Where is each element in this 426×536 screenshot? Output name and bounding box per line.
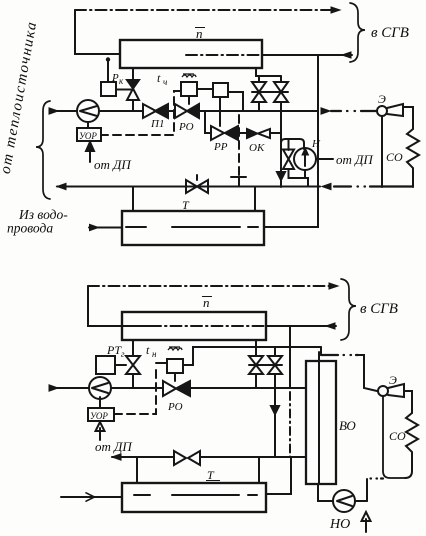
- svg-text:НО: НО: [329, 517, 350, 532]
- svg-text:РО: РО: [178, 121, 194, 133]
- svg-text:к: к: [119, 76, 124, 86]
- svg-text:от теплоисточника: от теплоисточника: [0, 20, 40, 176]
- svg-text:в СГВ: в СГВ: [371, 25, 409, 41]
- svg-text:УОР: УОР: [79, 131, 97, 141]
- svg-text:Э: Э: [378, 92, 386, 106]
- svg-text:ВО: ВО: [339, 418, 356, 433]
- svg-text:Н: Н: [311, 138, 321, 150]
- svg-text:в СГВ: в СГВ: [360, 301, 398, 317]
- svg-text:п: п: [203, 295, 210, 310]
- svg-text:от ДП: от ДП: [95, 439, 133, 454]
- svg-text:н: н: [152, 349, 157, 359]
- svg-text:РТ: РТ: [106, 343, 122, 357]
- svg-text:г: г: [121, 349, 125, 359]
- svg-text:ОК: ОК: [249, 142, 265, 154]
- svg-text:от ДП: от ДП: [94, 157, 132, 172]
- svg-text:РР: РР: [213, 141, 228, 153]
- svg-text:провода: провода: [7, 221, 53, 236]
- svg-text:СО: СО: [389, 429, 406, 443]
- svg-text:Р: Р: [111, 72, 119, 84]
- svg-text:П1: П1: [150, 118, 164, 130]
- svg-text:ч: ч: [163, 77, 167, 87]
- svg-text:t: t: [157, 71, 161, 85]
- svg-text:Э: Э: [389, 373, 397, 387]
- svg-text:РО: РО: [167, 401, 183, 413]
- svg-text:СО: СО: [386, 150, 403, 164]
- svg-text:УОР: УОР: [90, 411, 108, 421]
- svg-text:от ДП: от ДП: [336, 152, 374, 167]
- svg-text:п: п: [196, 26, 203, 41]
- svg-text:t: t: [146, 343, 150, 357]
- svg-text:Т: Т: [207, 468, 215, 482]
